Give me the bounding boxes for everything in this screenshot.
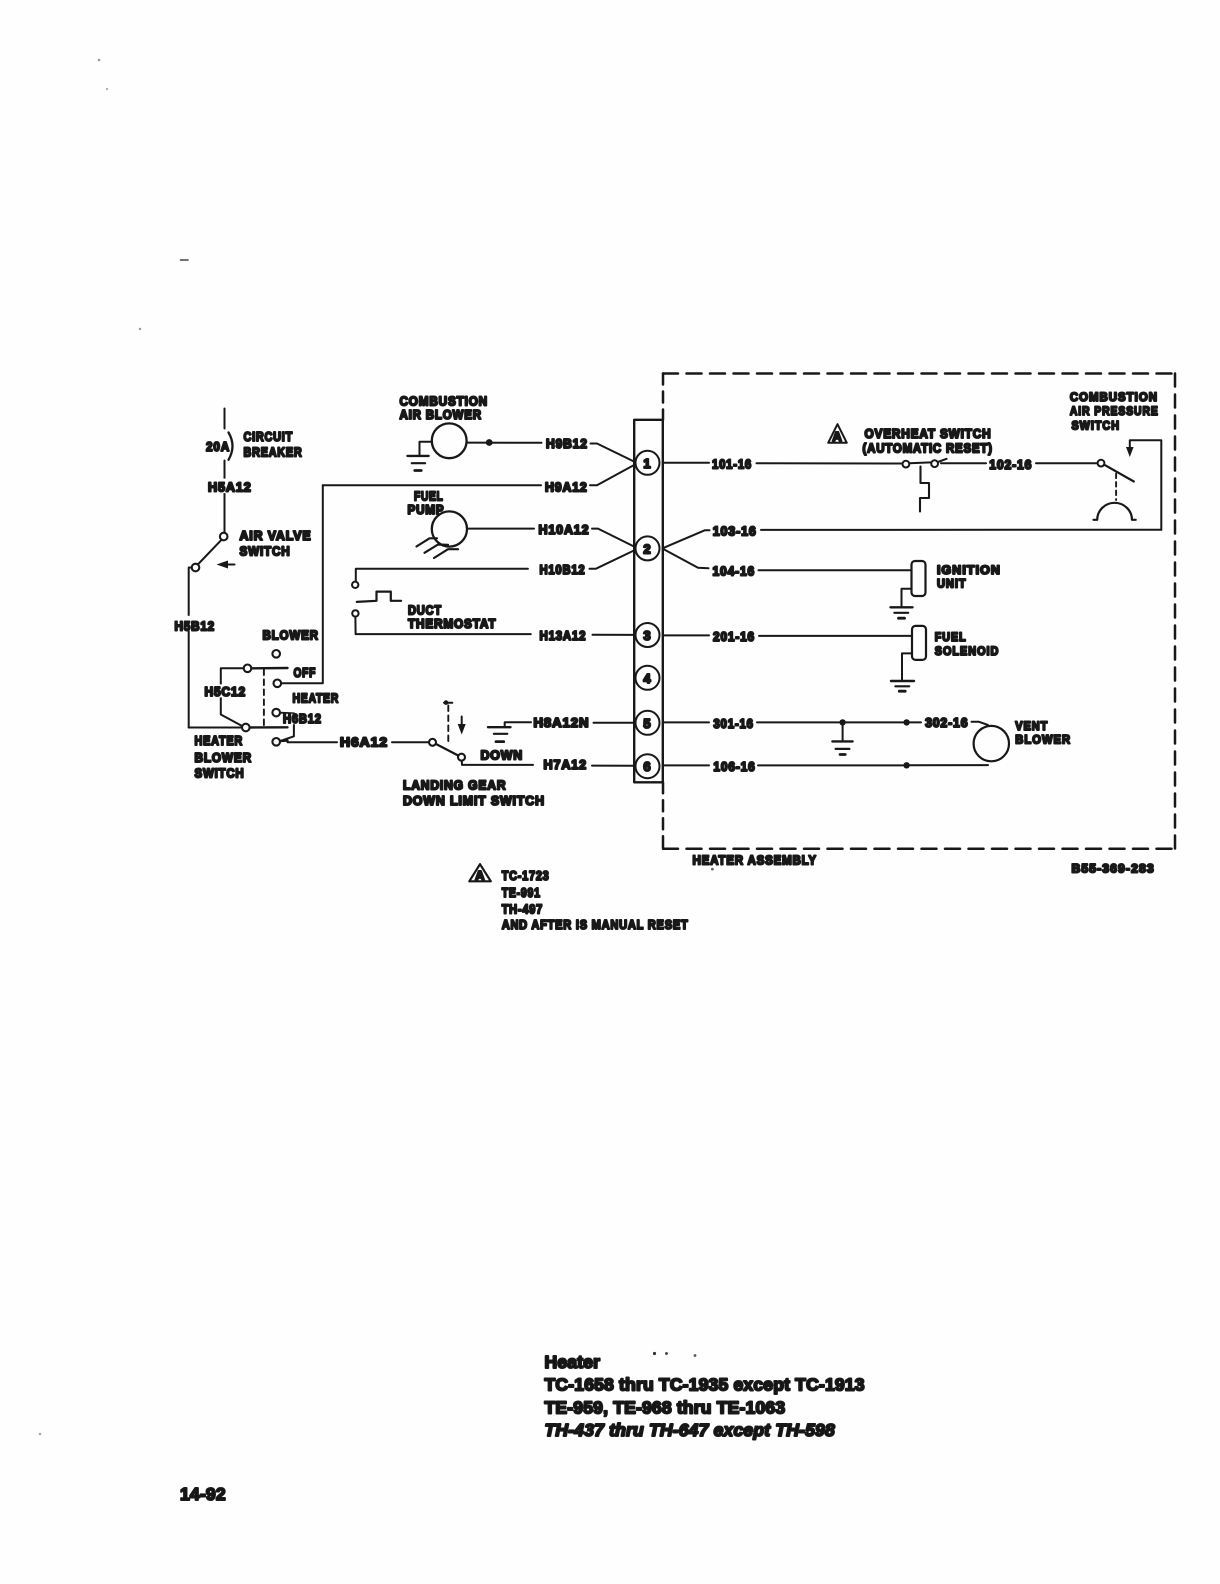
svg-text:BLOWER: BLOWER: [195, 750, 253, 765]
svg-text:6: 6: [643, 759, 651, 774]
svg-text:AIR PRESSURE: AIR PRESSURE: [1070, 404, 1159, 418]
svg-text:H8A12N: H8A12N: [534, 715, 590, 730]
svg-text:IGNITION: IGNITION: [937, 563, 1001, 577]
contact BLOWER: [272, 650, 280, 658]
heater blower switch S2 pole A common contact: [244, 665, 252, 673]
fuel pump mount legs: [417, 538, 438, 546]
blower ground: [420, 442, 432, 456]
pin 5: [636, 711, 660, 735]
pole A blade: [251, 667, 287, 670]
svg-text:HEATER: HEATER: [293, 691, 340, 706]
svg-text:VENT: VENT: [1015, 719, 1048, 733]
svg-text:20A: 20A: [206, 439, 230, 454]
svg-text:104-16: 104-16: [713, 564, 756, 579]
wire 104-16: [663, 549, 709, 568]
svg-text:H5B12: H5B12: [175, 619, 216, 634]
wire 301-16: [663, 721, 709, 723]
junction dot 302-16: [903, 719, 909, 725]
svg-text:CIRCUIT: CIRCUIT: [244, 429, 294, 444]
heater assembly enclosure dashed: [663, 372, 1175, 375]
svg-text:AIR BLOWER: AIR BLOWER: [400, 407, 482, 422]
wire H6A12: [288, 741, 338, 743]
svg-text:B55-369-283: B55-369-283: [1072, 862, 1155, 876]
wire 302-16: [907, 721, 921, 723]
contact to H6A12: [272, 738, 280, 746]
wire H9B12 with splice: [467, 442, 542, 444]
svg-text:HEATER: HEATER: [195, 733, 244, 748]
svg-text:A: A: [832, 429, 842, 444]
warning triangle A: [828, 424, 847, 443]
wire 106-16: [663, 764, 709, 766]
pressure switch actuator dashed: [1115, 474, 1117, 500]
svg-text:2: 2: [643, 541, 651, 556]
pin 6: [636, 754, 660, 778]
svg-text:AND AFTER IS MANUAL RESET: AND AFTER IS MANUAL RESET: [502, 917, 689, 932]
svg-text:DOWN LIMIT SWITCH: DOWN LIMIT SWITCH: [403, 793, 545, 808]
svg-text:LANDING GEAR: LANDING GEAR: [403, 778, 506, 793]
svg-text:TC-1658 thru TC-1935 except TC: TC-1658 thru TC-1935 except TC-1913: [545, 1375, 865, 1395]
wire OFF to H9A12 riser: [281, 485, 323, 683]
svg-text:5: 5: [643, 716, 651, 731]
svg-text:DOWN: DOWN: [481, 748, 524, 763]
svg-text:1: 1: [643, 456, 651, 471]
svg-text:BREAKER: BREAKER: [244, 445, 303, 460]
svg-text:H6A12: H6A12: [340, 735, 388, 750]
landing gear down limit switch pivot: [429, 739, 436, 746]
svg-text:TH-497: TH-497: [502, 902, 543, 917]
svg-text:3: 3: [643, 628, 651, 643]
ignition unit ground: [902, 589, 912, 607]
svg-text:H9B12: H9B12: [546, 436, 588, 451]
wire H10B12: [356, 569, 528, 581]
svg-text:UNIT: UNIT: [937, 576, 967, 590]
svg-text:H10B12: H10B12: [540, 562, 586, 577]
svg-text:H10A12: H10A12: [539, 522, 590, 537]
contact HEATER: [272, 709, 280, 717]
svg-text:THERMOSTAT: THERMOSTAT: [408, 616, 496, 631]
connector J1 body: [634, 420, 663, 783]
svg-text:(AUTOMATIC RESET): (AUTOMATIC RESET): [863, 441, 993, 456]
landing gear switch blade: [436, 744, 458, 756]
wire 201-16: [663, 634, 709, 636]
footnote warning triangle A: [469, 864, 491, 881]
svg-text:H6B12: H6B12: [283, 711, 322, 726]
svg-text:A: A: [475, 868, 485, 883]
svg-text:SWITCH: SWITCH: [1072, 419, 1121, 433]
pressure diaphragm dome: [1094, 503, 1136, 520]
junction dot 106-16: [903, 762, 909, 768]
wire 102-16: [941, 462, 986, 464]
svg-text:4: 4: [643, 671, 651, 686]
wire feed above circuit breaker: [224, 409, 226, 429]
wire H9A12: [323, 484, 541, 486]
svg-text:H7A12: H7A12: [544, 757, 588, 772]
svg-text:106-16: 106-16: [713, 759, 755, 774]
duct thermostat S3: [352, 582, 358, 588]
overheat switch S4 contacts: [903, 461, 910, 468]
svg-text:14-92: 14-92: [180, 1484, 226, 1504]
svg-text:301-16: 301-16: [713, 716, 753, 731]
wire H5C12: [221, 668, 244, 726]
wire H10A12: [467, 528, 534, 530]
mechanical linkage dashed: [263, 670, 265, 728]
svg-text:SOLENOID: SOLENOID: [935, 644, 1000, 658]
svg-text:COMBUSTION: COMBUSTION: [1070, 390, 1158, 404]
svg-text:OVERHEAT SWITCH: OVERHEAT SWITCH: [865, 426, 992, 441]
svg-text:OFF: OFF: [294, 665, 317, 680]
svg-text:TE-991: TE-991: [502, 885, 541, 900]
svg-text:101-16: 101-16: [712, 457, 752, 472]
pin 1: [636, 451, 660, 475]
pole B pivot contact: [242, 724, 250, 732]
svg-text:H5C12: H5C12: [205, 684, 247, 699]
wire H7A12: [462, 761, 533, 765]
wire H13A12: [355, 617, 530, 635]
wire H6B12: [280, 713, 294, 741]
scan specks: [181, 259, 189, 261]
svg-text:201-16: 201-16: [713, 629, 755, 644]
pole B blade: [250, 726, 288, 729]
svg-text:102-16: 102-16: [989, 457, 1032, 472]
svg-text:FUEL: FUEL: [935, 630, 967, 644]
ignition unit U1: [912, 561, 926, 596]
vent blower motor B3: [974, 726, 1009, 761]
circuit breaker CB1 20A: [229, 433, 233, 460]
svg-text:BLOWER: BLOWER: [1015, 733, 1071, 747]
wire 103-16: [761, 529, 1161, 531]
fuel solenoid L1: [912, 626, 926, 660]
svg-text:HEATER ASSEMBLY: HEATER ASSEMBLY: [693, 853, 817, 868]
junction dot at ground tap: [839, 719, 845, 725]
wire 101-16: [663, 462, 709, 464]
overheat bimetal element: [920, 467, 929, 512]
gear travel arrow down: [461, 717, 463, 727]
svg-text:SWITCH: SWITCH: [195, 766, 245, 781]
svg-text:TC-1723: TC-1723: [502, 868, 550, 883]
svg-text:Heater: Heater: [545, 1352, 601, 1372]
wire H5A12: [224, 461, 226, 533]
svg-text:BLOWER: BLOWER: [263, 628, 319, 643]
pin 2: [636, 536, 660, 560]
svg-text:H13A12: H13A12: [540, 628, 587, 643]
air valve actuate arrow: [217, 561, 229, 569]
svg-text:AIR VALVE: AIR VALVE: [240, 528, 312, 543]
fuel solenoid ground: [902, 653, 912, 680]
ground for H8A12N: [505, 722, 531, 727]
air valve switch S1: [220, 533, 228, 541]
wire H5B12: [189, 568, 192, 728]
svg-text:TE-959, TE-968 thru TE-1063: TE-959, TE-968 thru TE-1063: [545, 1397, 786, 1417]
svg-text:H5A12: H5A12: [208, 480, 252, 495]
contact OFF: [274, 680, 282, 688]
output hook and arrow: [1131, 440, 1162, 530]
svg-text:H9A12: H9A12: [545, 480, 588, 495]
ground at vent blower: [842, 722, 844, 741]
pin 4: [636, 666, 660, 690]
svg-text:103-16: 103-16: [713, 524, 757, 539]
svg-text:TH-437 thru TH-647 except TH-5: TH-437 thru TH-647 except TH-598: [545, 1420, 835, 1440]
svg-text:SWITCH: SWITCH: [240, 544, 291, 559]
svg-text:302-16: 302-16: [925, 715, 968, 730]
pin 3: [636, 623, 660, 647]
gear actuator dashed rod with tee: [447, 706, 449, 742]
